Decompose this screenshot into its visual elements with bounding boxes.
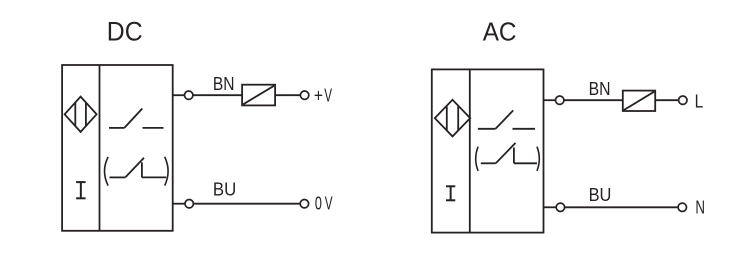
sensor body outline U1 (DC)	[62, 65, 173, 231]
wire BU (AC)	[565, 206, 679, 208]
programmable contact in parentheses (DC)	[105, 157, 169, 186]
inductive sensor symbol (DC)	[65, 97, 97, 132]
svg-text:AC: AC	[483, 16, 517, 46]
terminal circle 0V (DC)	[300, 200, 308, 208]
letter I (DC)	[76, 182, 86, 198]
sensor body divider (AC)	[469, 69, 471, 232]
svg-text:L: L	[695, 91, 704, 112]
svg-text:V: V	[324, 85, 332, 106]
svg-text:+: +	[314, 85, 323, 106]
terminal circle BU (AC)	[556, 203, 564, 211]
wire stub BN (AC)	[544, 99, 556, 101]
terminal circle BN (DC)	[185, 91, 193, 99]
NO contact symbol (DC)	[109, 109, 164, 128]
terminal circle N (AC)	[678, 203, 686, 211]
terminal circle +V (DC)	[300, 91, 308, 99]
sensor body outline U2 (AC)	[432, 69, 544, 232]
terminal circle BU (DC)	[185, 200, 193, 208]
svg-text:BN: BN	[589, 78, 611, 99]
svg-text:BU: BU	[589, 184, 612, 205]
wire BN to load (AC)	[564, 99, 623, 101]
wire stub BN (DC)	[173, 94, 185, 96]
wire BU (DC)	[193, 203, 300, 205]
load resistor (DC)	[242, 85, 275, 106]
wire BN to load (DC)	[193, 94, 242, 96]
wire stub BU (DC)	[173, 203, 185, 205]
NO contact symbol (AC)	[478, 110, 535, 128]
svg-text:V: V	[325, 193, 333, 214]
terminal circle L (AC)	[679, 96, 687, 104]
wire stub BU (AC)	[544, 206, 557, 208]
load resistor (AC)	[623, 91, 655, 111]
svg-text:N: N	[695, 197, 705, 218]
programmable contact in parentheses (AC)	[476, 143, 540, 171]
svg-text:0: 0	[315, 193, 322, 214]
sensor body divider (DC)	[99, 65, 101, 231]
svg-text:DC: DC	[107, 16, 143, 46]
letter I (AC)	[446, 186, 455, 200]
wire load to L (AC)	[655, 99, 678, 101]
inductive sensor symbol (AC)	[435, 100, 470, 137]
svg-text:BU: BU	[213, 178, 236, 199]
svg-text:BN: BN	[213, 73, 235, 94]
terminal circle BN (AC)	[556, 96, 564, 104]
wire load to +V (DC)	[275, 94, 300, 96]
